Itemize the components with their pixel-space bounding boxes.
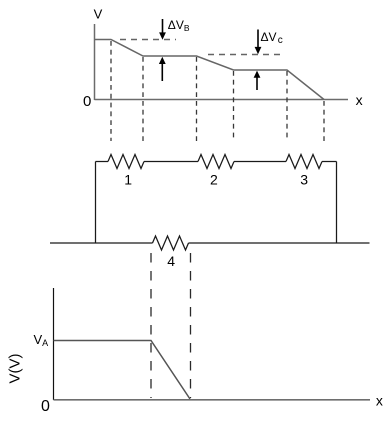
svg-text:x: x (376, 393, 383, 409)
wire: top-right segment (322, 161, 337, 163)
resistor 4 (153, 236, 189, 250)
bottom graph x-axis (54, 399, 371, 401)
wire: left vertical of loop (95, 162, 97, 244)
dashed drop line node e (x=287) (286, 71, 288, 141)
wire: between resistor 1 and 2 (144, 161, 198, 163)
dashed drop line from resistor 4 left (x=151) (150, 253, 152, 398)
svg-text:4: 4 (167, 253, 175, 269)
svg-text:3: 3 (300, 172, 308, 188)
up arrow for delta V_C (254, 71, 261, 90)
svg-text:x: x (356, 92, 363, 108)
dashed drop line node c (x=196.5) (196, 57, 198, 141)
wire: top-left segment (96, 161, 109, 163)
resistor 1 (108, 155, 144, 169)
svg-text:V: V (94, 6, 103, 21)
svg-text:ΔVc: ΔVc (261, 30, 283, 46)
dashed drop line node f (x=324) (323, 101, 325, 141)
down arrow for delta V_B (159, 19, 166, 40)
resistor 2 (198, 155, 234, 169)
dashed drop line node b (x=143) (142, 57, 144, 141)
top graph x axis (95, 99, 349, 101)
bottom curve V_A plateau and drop (54, 341, 191, 400)
resistor 3 (286, 155, 322, 169)
wire: right vertical of loop (336, 162, 338, 244)
wire: bottom rail left (50, 242, 153, 244)
svg-text:ΔVB: ΔVB (168, 18, 190, 33)
dashed drop line from resistor 4 right (x=190.5) (190, 253, 192, 398)
dashed reference line at level B (120, 39, 176, 41)
wire: between resistor 2 and 3 (234, 161, 286, 163)
svg-text:V(V): V(V) (7, 353, 24, 383)
down arrow for delta V_C (255, 30, 262, 55)
svg-text:0: 0 (83, 93, 91, 110)
svg-text:VA: VA (34, 332, 49, 348)
svg-text:1: 1 (124, 171, 132, 187)
wire: bottom rail right (189, 242, 370, 244)
svg-text:2: 2 (210, 172, 218, 188)
top graph V axis (y-axis) (94, 24, 96, 100)
dashed reference line at level C (208, 54, 284, 56)
svg-text:0: 0 (41, 398, 50, 415)
dashed drop line node d (x=233.5) (233, 71, 235, 141)
bottom graph y-axis (53, 288, 55, 400)
up arrow for delta V_B (159, 57, 166, 81)
dashed drop line node a (x=111) (110, 41, 112, 141)
voltage profile curve (95, 40, 325, 100)
